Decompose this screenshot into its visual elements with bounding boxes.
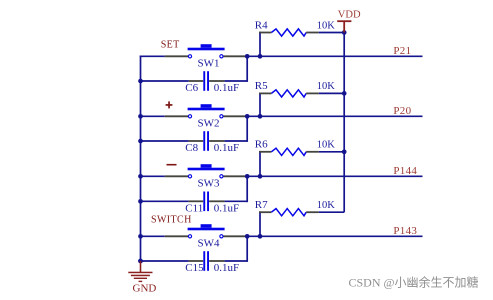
wire switch row SW3 left segment: [140, 175, 165, 177]
svg-text:CSDN @小幽余生不加糖: CSDN @小幽余生不加糖: [349, 274, 479, 289]
pin SW4 pin 2: [223, 235, 246, 237]
wire switch row SW4 left segment: [140, 235, 165, 237]
capacitor C11 plates: [203, 192, 209, 212]
svg-text:SWITCH: SWITCH: [151, 214, 192, 225]
pin C6 pin 1: [189, 80, 204, 82]
svg-text:10K: 10K: [317, 81, 336, 92]
svg-text:10K: 10K: [317, 20, 336, 31]
svg-text:SET: SET: [161, 40, 180, 51]
label minus: [167, 164, 177, 166]
capacitor C6 plates: [203, 71, 209, 91]
pin R4 pin 1: [259, 32, 271, 34]
pin C11 pin 2: [209, 200, 225, 202]
junction VDD rail at R4: [342, 30, 347, 35]
wire capacitor row C11 right segment: [225, 200, 248, 202]
svg-text:VDD: VDD: [338, 10, 361, 21]
pin SW3 pin 1: [165, 175, 188, 177]
pin C15 pin 2: [209, 260, 225, 262]
wire R7 to VDD rail: [319, 211, 344, 213]
junction at resistor drop x260: [258, 114, 263, 119]
ground GND symbol: [128, 261, 152, 282]
junction left rail at capacitor row: [138, 139, 143, 144]
svg-text:R7: R7: [255, 199, 268, 211]
power VDD symbol: [337, 20, 351, 32]
pin SW4 pin 1: [165, 235, 188, 237]
svg-text:SW4: SW4: [198, 238, 221, 250]
resistor R4 zigzag: [271, 29, 306, 36]
svg-text:C6: C6: [185, 82, 198, 94]
svg-text:SW2: SW2: [198, 118, 220, 130]
wire capacitor row C8 left segment: [140, 140, 189, 142]
junction left rail at GND corner: [138, 259, 143, 264]
svg-text:P21: P21: [393, 45, 411, 57]
switch SW4 pushbutton symbol: [188, 224, 225, 238]
switch SW2 pushbutton symbol: [188, 104, 225, 118]
svg-text:R6: R6: [255, 139, 268, 151]
junction VDD rail at R5: [342, 91, 347, 96]
wire vertical from switch to capacitor x247: [246, 56, 248, 82]
resistor R7 zigzag: [271, 209, 306, 216]
pin R5 pin 1: [259, 92, 271, 94]
wire vertical resistor R7 to switch row: [259, 211, 261, 236]
wire VDD vertical rail: [343, 33, 345, 213]
wire R5 to VDD rail: [319, 92, 344, 94]
pin SW1 pin 2: [223, 55, 246, 57]
wire left vertical rail: [140, 56, 142, 262]
wire net P143 horizontal: [246, 235, 422, 237]
svg-text:SW3: SW3: [198, 178, 221, 190]
pin R7 pin 2: [306, 211, 319, 213]
pin R7 pin 1: [259, 211, 271, 213]
junction at resistor drop x260: [258, 234, 263, 239]
wire capacitor row C6 left segment: [140, 80, 189, 82]
junction at switch output x247: [245, 234, 250, 239]
wire vertical from switch to capacitor x247: [246, 176, 248, 202]
svg-text:0.1uF: 0.1uF: [214, 142, 239, 154]
svg-text:10K: 10K: [317, 200, 336, 211]
pin SW3 pin 2: [223, 175, 246, 177]
pin SW2 pin 1: [165, 115, 188, 117]
pin C8 pin 2: [209, 140, 225, 142]
junction left rail at capacitor row: [138, 259, 143, 264]
svg-text:10K: 10K: [317, 140, 336, 151]
pin SW2 pin 2: [223, 115, 246, 117]
resistor R6 zigzag: [271, 148, 306, 155]
junction left rail at switch row SW2: [138, 114, 143, 119]
resistor R5 zigzag: [271, 90, 306, 97]
svg-text:SW1: SW1: [198, 58, 220, 70]
svg-text:R5: R5: [255, 80, 268, 92]
junction at resistor drop x260: [258, 54, 263, 59]
capacitor C8 plates: [203, 131, 209, 151]
wire R6 to VDD rail: [319, 151, 344, 153]
wire switch row SW1 left segment: [140, 55, 165, 57]
wire net P20 horizontal: [246, 115, 422, 117]
junction at switch output x247: [245, 54, 250, 59]
wire vertical resistor R4 to switch row: [259, 32, 261, 57]
capacitor C15 plates: [203, 251, 209, 271]
svg-text:0.1uF: 0.1uF: [214, 262, 239, 274]
svg-text:C8: C8: [185, 142, 198, 154]
pin R5 pin 2: [306, 92, 319, 94]
svg-text:GND: GND: [133, 283, 157, 295]
pin R6 pin 1: [259, 151, 271, 153]
pin R6 pin 2: [306, 151, 319, 153]
pin R4 pin 2: [306, 32, 319, 34]
svg-text:0.1uF: 0.1uF: [214, 82, 239, 94]
wire vertical from switch to capacitor x247: [246, 116, 248, 142]
svg-text:P143: P143: [393, 225, 417, 237]
junction left rail at capacitor row: [138, 79, 143, 84]
junction VDD rail at R6: [342, 149, 347, 154]
wire capacitor row C8 right segment: [225, 140, 248, 142]
wire vertical resistor R6 to switch row: [259, 151, 261, 176]
svg-text:C11: C11: [185, 203, 203, 215]
wire vertical from switch to capacitor x247: [246, 236, 248, 262]
wire switch row SW2 left segment: [140, 115, 165, 117]
svg-text:R4: R4: [255, 19, 268, 31]
wire net P144 horizontal: [246, 175, 422, 177]
svg-text:0.1uF: 0.1uF: [214, 203, 239, 215]
wire capacitor row C11 left segment: [140, 200, 189, 202]
wire capacitor row C15 right segment: [225, 260, 248, 262]
wire capacitor row C15 left segment: [140, 260, 189, 262]
pin C15 pin 1: [189, 260, 204, 262]
pin SW1 pin 1: [165, 55, 188, 57]
junction at resistor drop x260: [258, 174, 263, 179]
switch SW1 pushbutton symbol: [188, 44, 225, 58]
wire capacitor row C6 right segment: [225, 80, 248, 82]
junction at switch output x247: [245, 114, 250, 119]
label plus: [166, 101, 173, 108]
junction left rail at capacitor row: [138, 199, 143, 204]
pin C11 pin 1: [189, 200, 204, 202]
switch SW3 pushbutton symbol: [188, 164, 225, 178]
pin C6 pin 2: [209, 80, 225, 82]
junction left rail at switch row SW3: [138, 174, 143, 179]
svg-text:P20: P20: [393, 105, 411, 117]
junction left rail at switch row SW4: [138, 234, 143, 239]
wire vertical resistor R5 to switch row: [259, 93, 261, 117]
wire net P21 horizontal: [246, 55, 422, 57]
svg-text:P144: P144: [393, 165, 417, 177]
junction at switch output x247: [245, 174, 250, 179]
pin C8 pin 1: [189, 140, 204, 142]
wire R4 to VDD rail: [319, 32, 344, 34]
svg-text:C15: C15: [185, 262, 204, 274]
